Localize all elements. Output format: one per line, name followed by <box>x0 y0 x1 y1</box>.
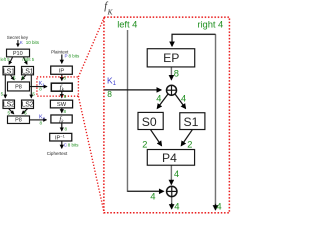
svg-text:8 bits: 8 bits <box>68 142 80 147</box>
svg-text:IP−1: IP−1 <box>55 133 66 141</box>
svg-text:EP: EP <box>163 51 179 65</box>
svg-text:fk: fk <box>59 115 64 125</box>
svg-text:4: 4 <box>156 93 161 103</box>
svg-text:LS2: LS2 <box>22 102 34 109</box>
svg-text:K1: K1 <box>107 75 117 87</box>
svg-text:left 5: left 5 <box>1 57 11 62</box>
svg-text:8: 8 <box>39 87 42 92</box>
svg-text:right 5: right 5 <box>22 57 34 62</box>
svg-text:8: 8 <box>39 120 42 125</box>
svg-text:left 4: left 4 <box>117 19 137 29</box>
svg-text:8 bits: 8 bits <box>69 53 81 58</box>
svg-text:4: 4 <box>150 192 155 202</box>
svg-text:P4: P4 <box>162 151 177 165</box>
svg-text:8: 8 <box>174 69 179 79</box>
svg-text:SW: SW <box>57 102 67 108</box>
svg-text:5: 5 <box>24 110 27 115</box>
svg-text:4: 4 <box>216 202 221 212</box>
svg-text:4: 4 <box>181 93 186 103</box>
svg-text:fk: fk <box>60 83 65 93</box>
svg-text:8: 8 <box>64 127 67 132</box>
svg-text:P: P <box>65 53 68 58</box>
svg-text:5: 5 <box>7 110 10 115</box>
svg-text:K1: K1 <box>39 81 46 87</box>
svg-text:P10: P10 <box>13 51 23 57</box>
svg-text:K: K <box>20 40 23 45</box>
svg-text:10 bits: 10 bits <box>26 40 40 45</box>
svg-text:8: 8 <box>64 94 67 99</box>
svg-text:right 4: right 4 <box>197 20 223 30</box>
svg-text:5: 5 <box>13 76 16 81</box>
svg-text:5: 5 <box>32 91 35 96</box>
svg-text:4: 4 <box>174 202 179 212</box>
svg-text:2: 2 <box>142 139 147 149</box>
svg-text:S1: S1 <box>184 115 199 129</box>
svg-text:LS2: LS2 <box>3 102 15 109</box>
svg-text:4: 4 <box>174 169 179 179</box>
svg-text:Ciphertext: Ciphertext <box>47 151 68 156</box>
svg-text:LS1: LS1 <box>3 68 15 75</box>
svg-text:8: 8 <box>107 89 112 99</box>
svg-text:P8: P8 <box>15 118 22 124</box>
svg-text:LS1: LS1 <box>22 68 34 75</box>
svg-text:S0: S0 <box>142 115 157 129</box>
svg-text:2: 2 <box>187 139 192 149</box>
svg-text:K: K <box>107 8 114 16</box>
svg-text:8: 8 <box>63 76 66 81</box>
svg-text:P8: P8 <box>15 85 22 91</box>
svg-text:5: 5 <box>1 91 4 96</box>
svg-text:IP: IP <box>59 68 65 74</box>
svg-text:K2: K2 <box>39 114 46 120</box>
svg-text:8: 8 <box>63 109 66 114</box>
